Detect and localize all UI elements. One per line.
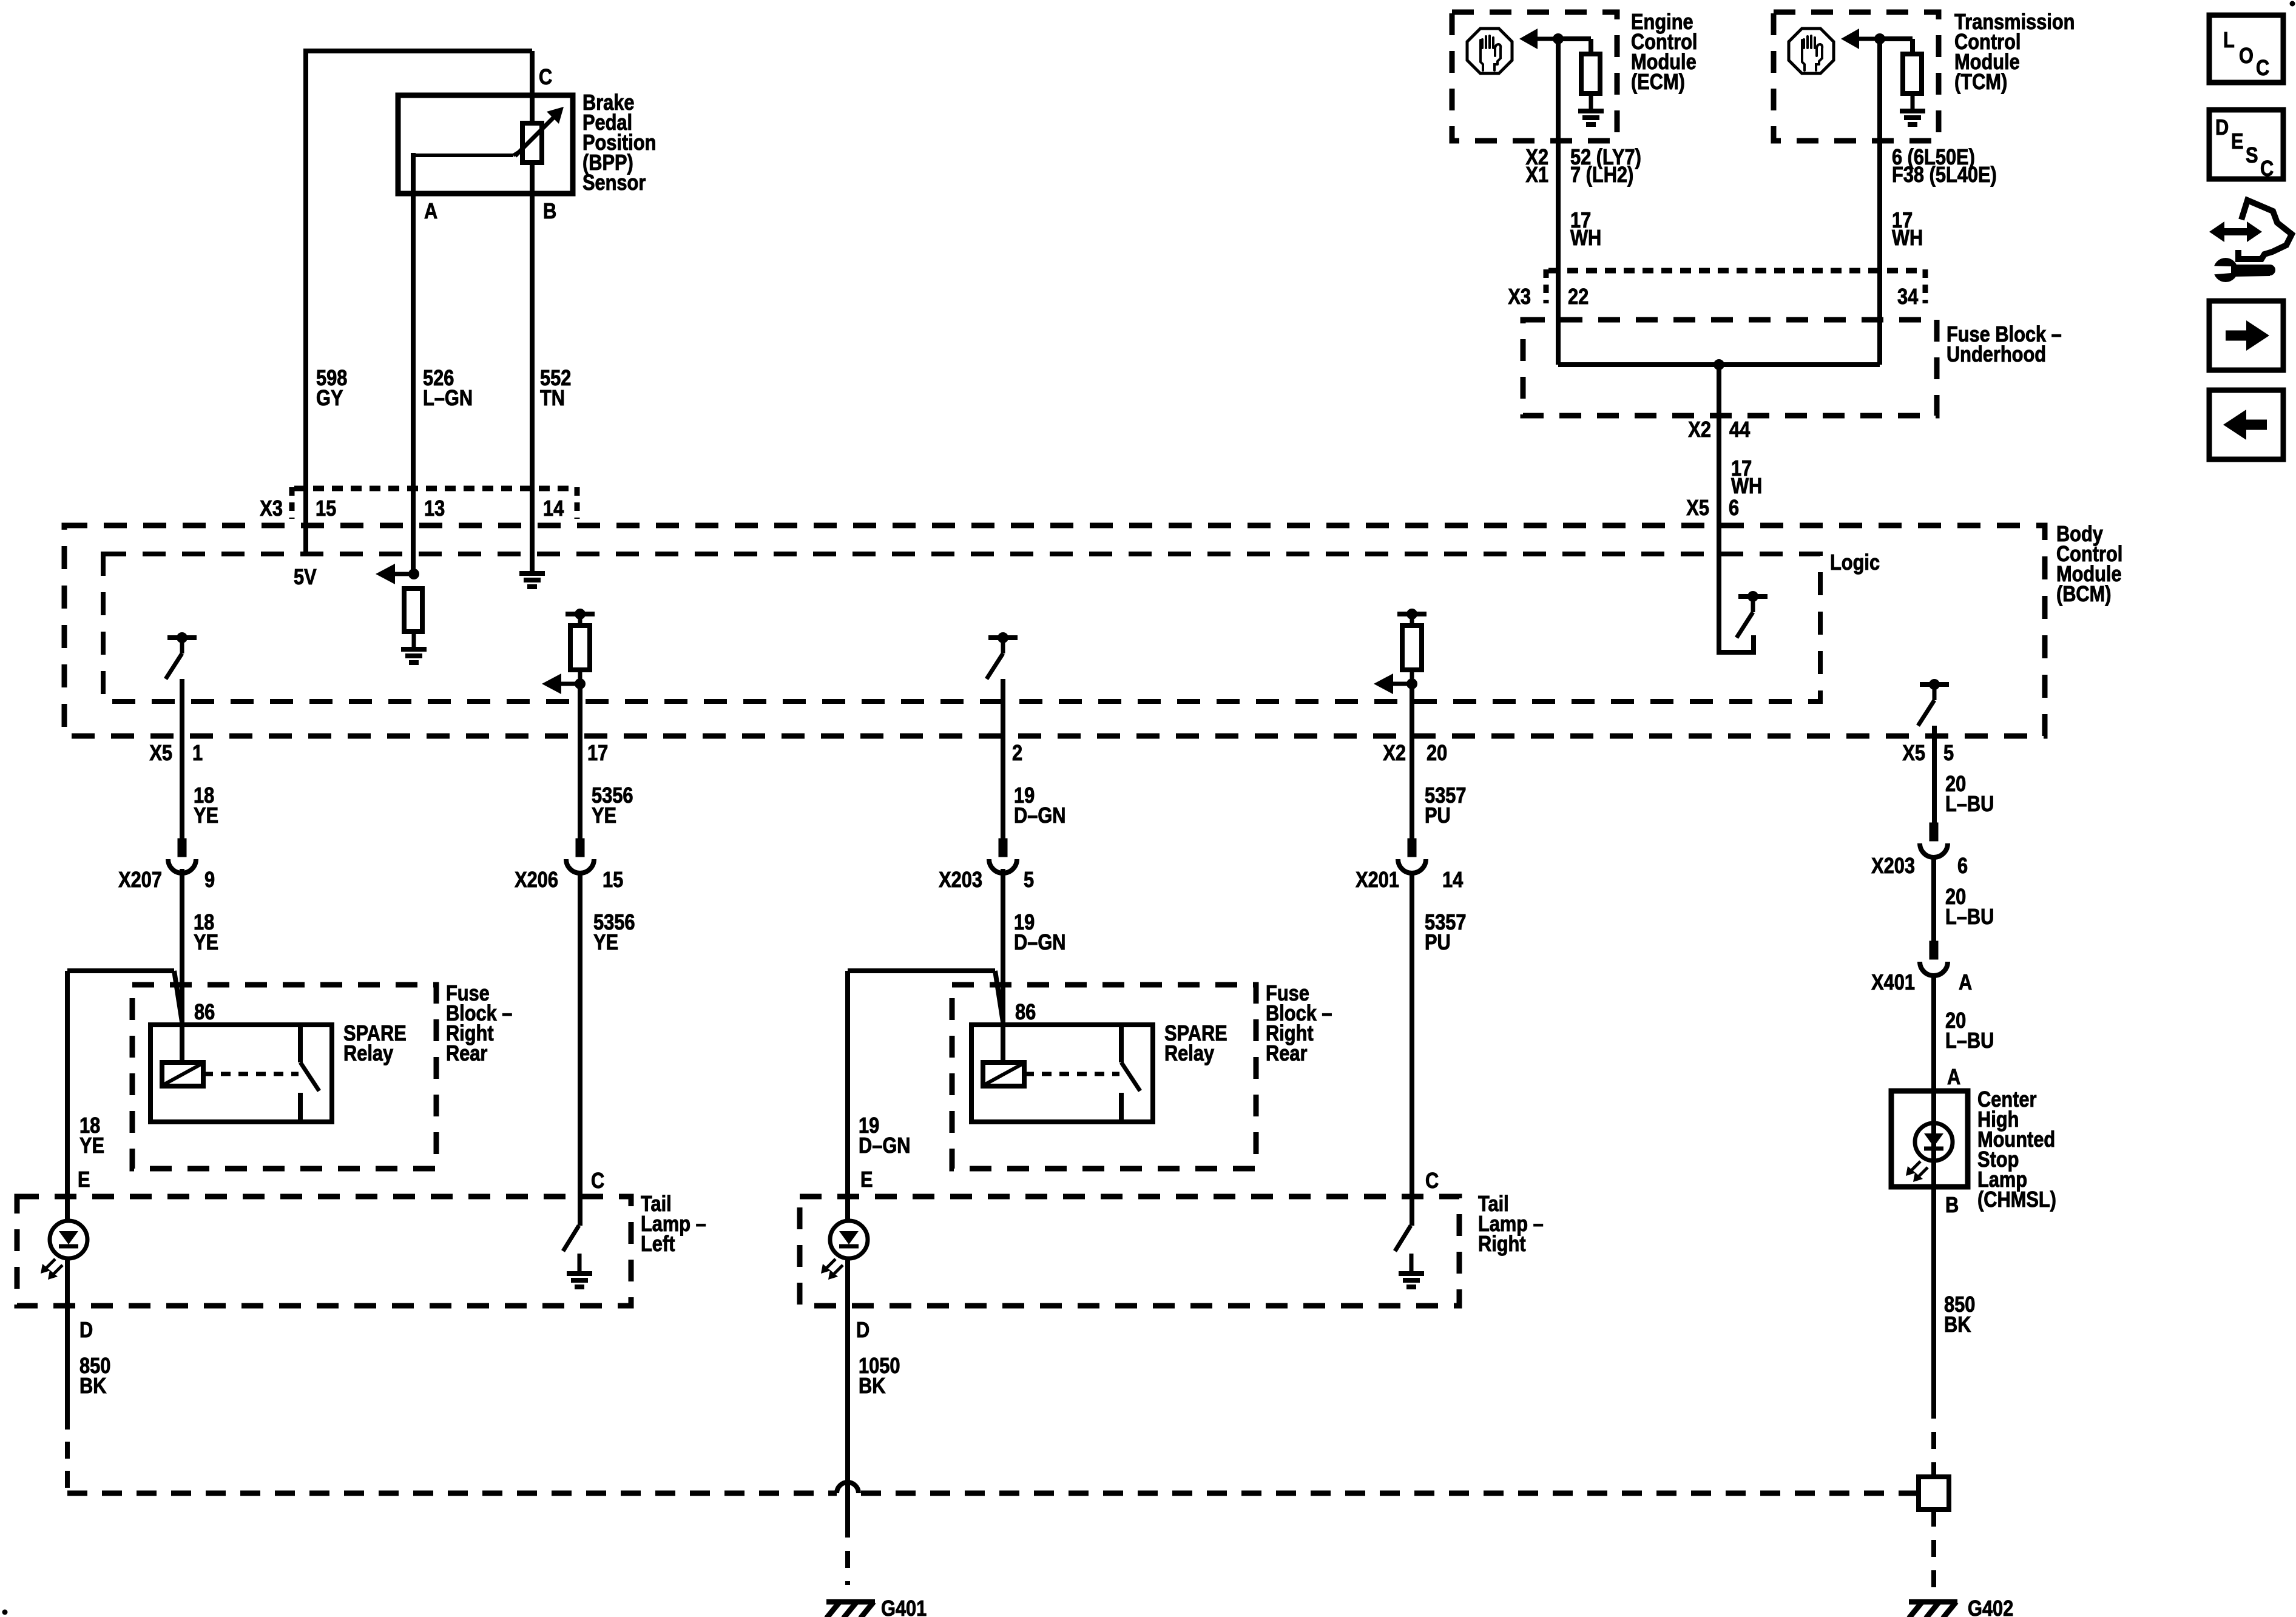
svg-text:C: C [1425, 1169, 1439, 1193]
svg-text:(TCM): (TCM) [1954, 70, 2007, 95]
svg-text:D–GN: D–GN [859, 1134, 910, 1158]
svg-text:Rear: Rear [1266, 1042, 1307, 1066]
svg-text:G402: G402 [1968, 1597, 2013, 1617]
svg-text:X5: X5 [149, 741, 172, 766]
svg-text:GY: GY [316, 387, 343, 411]
svg-text:D: D [79, 1318, 93, 1343]
svg-text:G401: G401 [881, 1597, 927, 1617]
svg-text:TN: TN [540, 387, 565, 411]
svg-text:A: A [1947, 1065, 1960, 1090]
svg-text:Sensor: Sensor [582, 171, 646, 195]
svg-text:14: 14 [1442, 868, 1464, 893]
svg-text:44: 44 [1729, 418, 1751, 442]
svg-text:WH: WH [1570, 226, 1601, 251]
svg-text:L: L [2223, 29, 2235, 53]
svg-text:86: 86 [194, 1001, 215, 1025]
svg-text:(ECM): (ECM) [1631, 70, 1685, 95]
svg-text:PU: PU [1425, 931, 1451, 955]
svg-text:X207: X207 [118, 868, 162, 893]
svg-text:YE: YE [194, 804, 218, 828]
svg-text:D: D [2215, 116, 2229, 140]
svg-text:Relay: Relay [343, 1042, 393, 1066]
svg-text:F38 (5L40E): F38 (5L40E) [1892, 163, 1997, 187]
svg-text:Logic: Logic [1830, 551, 1880, 575]
svg-text:X2: X2 [1688, 418, 1711, 442]
svg-text:YE: YE [593, 931, 618, 955]
svg-text:L–BU: L–BU [1945, 905, 1994, 930]
svg-text:E: E [860, 1168, 873, 1192]
svg-text:X3: X3 [260, 497, 283, 521]
svg-text:B: B [543, 200, 556, 224]
svg-text:C: C [2260, 157, 2274, 181]
svg-text:BK: BK [1944, 1313, 1971, 1337]
svg-text:X201: X201 [1356, 868, 1399, 893]
svg-text:YE: YE [79, 1134, 104, 1158]
svg-text:2: 2 [1012, 741, 1022, 766]
svg-text:A: A [424, 200, 437, 224]
svg-text:Underhood: Underhood [1947, 343, 2046, 367]
svg-text:1: 1 [192, 741, 203, 766]
svg-text:YE: YE [592, 804, 616, 828]
svg-text:X1: X1 [1525, 163, 1548, 187]
svg-text:13: 13 [424, 497, 445, 521]
svg-text:L–BU: L–BU [1945, 792, 1994, 817]
svg-text:O: O [2239, 44, 2254, 69]
svg-text:6: 6 [1729, 496, 1739, 521]
svg-text:Left: Left [641, 1232, 675, 1257]
svg-text:6: 6 [1957, 854, 1968, 879]
svg-text:Right: Right [1478, 1232, 1526, 1257]
svg-text:S: S [2246, 144, 2258, 168]
svg-text:9: 9 [204, 868, 215, 893]
svg-text:E: E [2231, 130, 2244, 154]
svg-text:L–GN: L–GN [423, 387, 473, 411]
svg-text:X5: X5 [1686, 496, 1709, 521]
svg-text:X5: X5 [1902, 741, 1925, 766]
svg-text:5: 5 [1943, 741, 1954, 766]
svg-text:(CHMSL): (CHMSL) [1977, 1188, 2056, 1212]
svg-text:PU: PU [1425, 804, 1451, 828]
svg-text:17: 17 [587, 741, 608, 766]
svg-text:X3: X3 [1508, 285, 1531, 309]
svg-text:(BCM): (BCM) [2056, 582, 2112, 607]
svg-text:X203: X203 [1871, 854, 1915, 879]
svg-text:WH: WH [1892, 226, 1923, 251]
svg-text:C: C [2256, 56, 2269, 81]
svg-text:86: 86 [1015, 1001, 1036, 1025]
svg-text:7 (LH2): 7 (LH2) [1570, 163, 1633, 187]
svg-text:15: 15 [603, 868, 623, 893]
svg-text:Rear: Rear [446, 1042, 487, 1066]
svg-text:X203: X203 [939, 868, 982, 893]
svg-text:D–GN: D–GN [1014, 931, 1065, 955]
svg-text:20: 20 [1427, 741, 1447, 766]
svg-text:5: 5 [1024, 868, 1034, 893]
svg-text:BK: BK [859, 1374, 885, 1399]
svg-text:X206: X206 [515, 868, 558, 893]
svg-text:34: 34 [1897, 285, 1919, 309]
svg-text:Relay: Relay [1164, 1042, 1214, 1066]
svg-text:YE: YE [194, 931, 218, 955]
svg-text:A: A [1959, 971, 1972, 995]
svg-text:B: B [1945, 1193, 1959, 1218]
svg-text:14: 14 [543, 497, 564, 521]
svg-text:BK: BK [79, 1374, 106, 1399]
svg-text:C: C [591, 1169, 604, 1193]
svg-text:22: 22 [1568, 285, 1589, 309]
svg-text:C: C [539, 66, 552, 90]
svg-text:L–BU: L–BU [1945, 1029, 1994, 1053]
svg-text:D–GN: D–GN [1014, 804, 1065, 828]
svg-text:E: E [78, 1168, 90, 1192]
svg-text:15: 15 [316, 497, 336, 521]
svg-text:X2: X2 [1383, 741, 1406, 766]
svg-text:X401: X401 [1871, 971, 1915, 995]
svg-text:5V: 5V [294, 565, 317, 590]
svg-text:D: D [856, 1318, 869, 1343]
svg-text:WH: WH [1731, 474, 1762, 499]
